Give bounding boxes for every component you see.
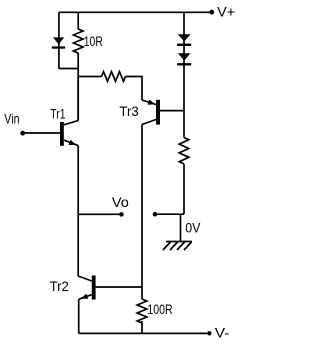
wire Vin to Tr1 base bbox=[25, 132, 61, 134]
wire Vo stub bbox=[78, 213, 120, 215]
ground hatch 1 bbox=[163, 242, 171, 250]
node V- dot bbox=[207, 331, 211, 335]
wire horizontal to R2 bbox=[78, 76, 101, 78]
ground hatch 2 bbox=[170, 242, 178, 250]
svg-text:Tr2: Tr2 bbox=[50, 278, 69, 294]
node Vo dot bbox=[119, 212, 124, 217]
wire connector D1 bottom to 10R bottom bbox=[59, 68, 78, 70]
transistor Q1 Tr1 collector diagonal bbox=[64, 121, 78, 125]
transistor Q3 Tr3 collector diagonal bbox=[142, 120, 156, 125]
svg-text:V+: V+ bbox=[217, 3, 235, 19]
transistor Q3 Tr3 base lead bbox=[160, 110, 184, 112]
svg-text:100R: 100R bbox=[147, 301, 172, 317]
wire Tr2 emitter down bbox=[78, 299, 80, 333]
node 0V dot bbox=[153, 212, 158, 217]
wire top rail V+ bbox=[59, 11, 211, 13]
wire 0V horizontal bbox=[156, 213, 184, 215]
wire 10R bottom to Tr1 collector corner bbox=[77, 53, 79, 121]
transistor Q2 Tr2 base lead bbox=[96, 286, 142, 288]
transistor Q1 Tr1 emitter diagonal bbox=[64, 140, 78, 146]
wire Tr1 emitter down to Tr2 bbox=[77, 146, 79, 276]
svg-text:Vo: Vo bbox=[112, 194, 129, 210]
resistor R4 100R bbox=[137, 299, 147, 323]
transistor Q3 Tr3 emitter arrow bbox=[148, 100, 156, 105]
diode D1 bbox=[53, 37, 64, 44]
svg-text:10R: 10R bbox=[84, 33, 103, 49]
diode D2 bbox=[178, 34, 191, 41]
wire 100R bottom lead bbox=[141, 321, 143, 333]
svg-text:Vin: Vin bbox=[4, 110, 19, 126]
resistor R2 horizontal bbox=[102, 72, 126, 82]
wire R3 bottom to 0V corner bbox=[183, 164, 185, 214]
node V+ dot bbox=[209, 10, 214, 15]
diode D3 bbox=[178, 53, 191, 60]
node Vin dot bbox=[20, 131, 25, 136]
wire mid vertical Tr3 collector down to 100R bbox=[141, 125, 143, 300]
svg-text:V-: V- bbox=[215, 325, 230, 341]
wire Tr1 collector up bbox=[77, 77, 79, 121]
svg-text:0V: 0V bbox=[185, 219, 201, 235]
svg-text:Tr3: Tr3 bbox=[119, 103, 138, 119]
transistor Q2 Tr2 emitter arrow bbox=[81, 294, 89, 299]
transistor Q2 Tr2 emitter diagonal bbox=[79, 295, 92, 300]
transistor Q2 Tr2 base bar bbox=[92, 276, 96, 300]
svg-text:Tr1: Tr1 bbox=[50, 105, 65, 121]
ground hatch 4 bbox=[184, 242, 192, 250]
resistor R1 10R bbox=[73, 29, 83, 53]
resistor R3 bbox=[179, 138, 189, 164]
wire R2 to Tr3 emitter corner bbox=[126, 77, 143, 101]
ground hatch 3 bbox=[177, 242, 185, 250]
transistor Q3 Tr3 emitter diagonal bbox=[142, 100, 156, 105]
wire 10R top lead bbox=[77, 12, 79, 29]
transistor Q1 Tr1 base bar bbox=[60, 122, 64, 146]
transistor Q1 Tr1 emitter arrow bbox=[69, 140, 77, 145]
transistor Q2 Tr2 collector diagonal bbox=[78, 276, 92, 281]
wire left corner down to diode D1 bbox=[58, 12, 60, 68]
transistor Q3 Tr3 base bar bbox=[156, 100, 160, 125]
wire ground branch bbox=[180, 214, 182, 241]
wire right branch V+ to diodes bbox=[183, 12, 185, 137]
ground bar bbox=[166, 241, 192, 243]
wire bottom rail V- bbox=[79, 332, 208, 334]
